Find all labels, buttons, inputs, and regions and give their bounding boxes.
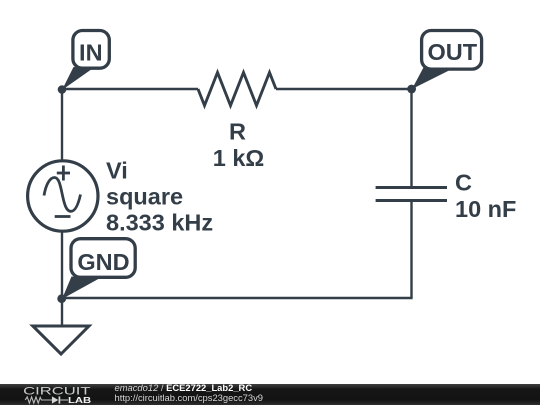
- svg-text:10 nF: 10 nF: [455, 196, 516, 222]
- node label IN: [62, 31, 109, 91]
- svg-text:C: C: [455, 170, 472, 196]
- voltage source Vi label "Vi / square / 8.333 kHz": [106, 158, 213, 236]
- wire bottom rail: [62, 297, 413, 299]
- voltage source Vi: [28, 161, 98, 231]
- node OUT dot: [407, 85, 416, 94]
- ground: [33, 326, 89, 354]
- svg-text:LAB: LAB: [68, 395, 91, 405]
- node label GND: [62, 239, 135, 299]
- resistor R: [198, 73, 276, 106]
- svg-text:OUT: OUT: [427, 39, 477, 65]
- node IN dot: [58, 85, 67, 94]
- footer credit text: [115, 382, 264, 403]
- svg-text:1 kΩ: 1 kΩ: [213, 145, 265, 171]
- wire left upper (IN node down to source): [61, 89, 63, 161]
- svg-text:R: R: [229, 119, 246, 145]
- CircuitLab logo: [23, 386, 91, 405]
- svg-text:http://circuitlab.com/cps23gec: http://circuitlab.com/cps23gecc73v9: [115, 392, 264, 403]
- capacitor C label "C / 10 nF": [455, 170, 516, 223]
- svg-text:square: square: [106, 184, 183, 210]
- svg-text:Vi: Vi: [106, 158, 128, 184]
- wire top-right (resistor to OUT node): [276, 88, 412, 90]
- wire left lower (source to GND node): [61, 231, 63, 298]
- capacitor C: [376, 188, 447, 201]
- wire top-left (IN node to resistor): [62, 88, 198, 90]
- svg-text:GND: GND: [77, 249, 129, 275]
- wire right lower (capacitor to bottom rail): [410, 200, 412, 298]
- resistor R label "R / 1 kΩ": [213, 119, 265, 172]
- node label OUT: [412, 31, 482, 90]
- svg-text:IN: IN: [79, 39, 103, 65]
- wire ground stub: [61, 298, 63, 326]
- wire right upper (OUT node down to capacitor): [410, 89, 412, 187]
- svg-text:8.333 kHz: 8.333 kHz: [106, 210, 213, 236]
- node GND dot: [57, 294, 66, 303]
